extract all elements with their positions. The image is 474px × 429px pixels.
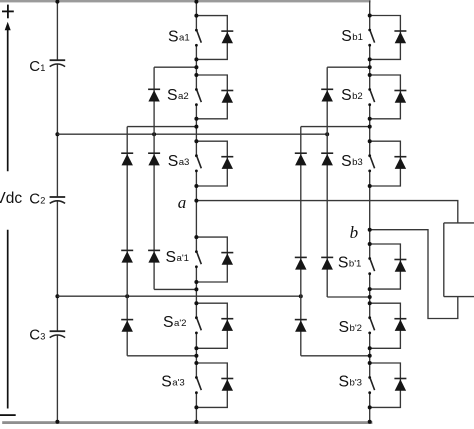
svg-text:C: C bbox=[29, 326, 40, 343]
svg-text:a'3: a'3 bbox=[172, 377, 185, 388]
svg-text:b2: b2 bbox=[352, 91, 363, 102]
svg-text:b'3: b'3 bbox=[350, 378, 363, 389]
svg-text:2: 2 bbox=[40, 195, 45, 205]
svg-text:a1: a1 bbox=[179, 32, 190, 43]
svg-text:S: S bbox=[339, 374, 350, 391]
svg-text:a: a bbox=[178, 193, 187, 212]
svg-text:S: S bbox=[341, 28, 352, 45]
svg-text:S: S bbox=[167, 87, 178, 104]
svg-text:S: S bbox=[341, 153, 352, 170]
svg-text:a3: a3 bbox=[179, 157, 190, 168]
svg-text:S: S bbox=[161, 373, 172, 390]
svg-text:a'2: a'2 bbox=[174, 318, 187, 329]
svg-text:S: S bbox=[338, 254, 349, 271]
svg-text:a2: a2 bbox=[178, 91, 189, 102]
svg-text:C: C bbox=[29, 58, 40, 75]
svg-text:1: 1 bbox=[40, 63, 45, 73]
svg-text:a'1: a'1 bbox=[177, 253, 190, 264]
svg-text:S: S bbox=[166, 249, 177, 266]
svg-text:S: S bbox=[168, 28, 179, 45]
svg-text:b'1: b'1 bbox=[349, 258, 362, 269]
svg-text:b3: b3 bbox=[352, 157, 363, 168]
svg-text:b'2: b'2 bbox=[350, 323, 363, 334]
svg-text:C: C bbox=[29, 190, 40, 207]
svg-text:b1: b1 bbox=[352, 32, 363, 43]
svg-text:b: b bbox=[350, 223, 359, 242]
svg-text:3: 3 bbox=[40, 331, 45, 341]
svg-text:S: S bbox=[168, 153, 179, 170]
svg-text:S: S bbox=[341, 87, 352, 104]
svg-text:Vdc: Vdc bbox=[0, 190, 22, 207]
svg-text:S: S bbox=[339, 319, 350, 336]
svg-text:S: S bbox=[163, 314, 174, 331]
